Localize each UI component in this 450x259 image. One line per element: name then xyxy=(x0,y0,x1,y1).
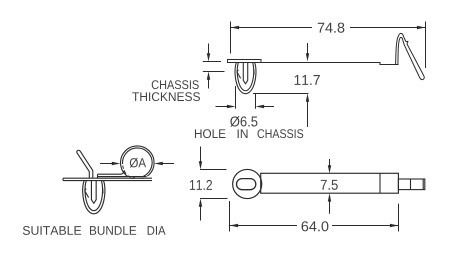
dim A arrow left xyxy=(100,163,113,165)
dim 11.7 arrow bottom xyxy=(307,100,309,127)
chassis thickness arrow top xyxy=(208,44,210,57)
dim 7.5 text xyxy=(321,180,338,190)
dim 64.0 line xyxy=(230,225,399,227)
strap body xyxy=(261,173,399,193)
dim 11.7 arrow top xyxy=(307,43,309,55)
dim 64.0 text xyxy=(302,221,329,231)
dim 7.5 arrow bottom xyxy=(329,200,331,214)
eyelet outer circle xyxy=(233,169,262,198)
label HOLE IN CHASSIS xyxy=(195,129,226,138)
label CHASSIS THICKNESS xyxy=(152,80,199,89)
bundle ring outer xyxy=(121,146,155,180)
strap tail ledge xyxy=(98,170,147,178)
eyelet slot xyxy=(237,179,256,190)
dim 11.2 arrow top xyxy=(200,147,202,164)
strap divider xyxy=(379,173,381,193)
dim A arrow right xyxy=(162,163,174,165)
dim 64.0 extension lines xyxy=(230,201,399,232)
bundle ring inner xyxy=(123,148,153,178)
label A xyxy=(130,158,146,168)
push-pin (bottom view) xyxy=(83,181,105,214)
chassis thickness extension lines xyxy=(203,62,225,72)
dim 6.5 text xyxy=(230,116,257,127)
strap tip xyxy=(398,179,424,190)
dim 6.5 line and arrows xyxy=(216,106,228,108)
dim 74.8 line xyxy=(231,27,426,29)
dim 6.5 extension lines xyxy=(236,86,256,109)
dim 64.0 arrow left xyxy=(230,224,239,227)
dim 74.8 text xyxy=(318,23,345,33)
dim 11.2 text xyxy=(190,180,212,190)
bundle ring flattened bottom (mask) xyxy=(124,176,148,178)
dim 74.8 extension line right xyxy=(425,22,427,69)
flange (top view) xyxy=(228,60,262,63)
push-pin (top view) xyxy=(235,62,256,93)
dim 11.2 arrow bottom xyxy=(200,205,202,221)
dim 11.2 extension lines xyxy=(200,170,228,199)
dim 74.8 arrow left xyxy=(231,26,240,29)
strap bar (side view) xyxy=(261,63,399,65)
strap base (flange) xyxy=(63,178,152,180)
dim 11.7 text xyxy=(295,75,320,85)
dim 74.8 arrow right xyxy=(417,26,426,29)
hook finger (right end) xyxy=(396,33,425,79)
hidden strap end (dashed) xyxy=(123,166,135,178)
dim 74.8 extension line left xyxy=(230,22,232,54)
strap tip dividers xyxy=(411,179,424,190)
label SUITABLE BUNDLE DIA xyxy=(23,226,81,235)
strap free end (diagonal) xyxy=(77,150,93,178)
chassis thickness arrow bottom xyxy=(208,78,210,89)
dim 7.5 arrow top xyxy=(329,159,331,167)
dim 11.7 extension line xyxy=(253,93,309,95)
dim 64.0 arrow right xyxy=(390,224,399,227)
